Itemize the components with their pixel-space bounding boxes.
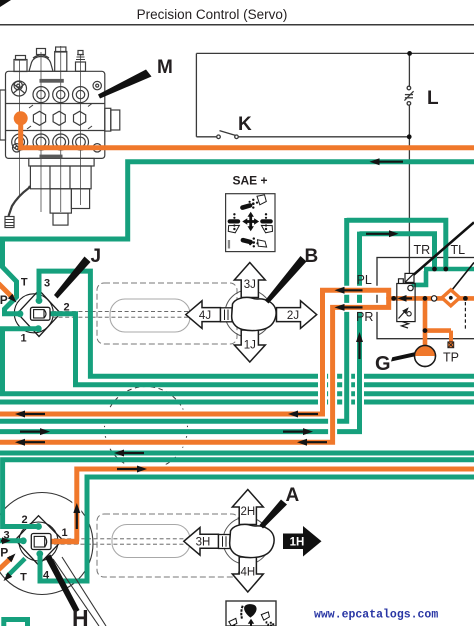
svg-text:PL: PL [357, 273, 372, 287]
svg-text:4H: 4H [240, 567, 255, 579]
svg-text:P: P [0, 546, 8, 560]
svg-text:1J: 1J [244, 340, 256, 352]
svg-text:1: 1 [20, 333, 26, 345]
svg-text:J: J [91, 246, 102, 267]
svg-text:2: 2 [63, 302, 69, 314]
svg-text:www.epcatalogs.com: www.epcatalogs.com [314, 609, 438, 622]
svg-text:PR: PR [356, 310, 373, 324]
svg-text:TP: TP [443, 351, 459, 365]
svg-text:1H: 1H [290, 536, 305, 548]
svg-text:3: 3 [3, 530, 9, 542]
svg-text:SAE +: SAE + [232, 174, 267, 188]
svg-text:4: 4 [43, 570, 50, 582]
svg-text:2: 2 [21, 514, 27, 526]
svg-text:A: A [286, 485, 300, 506]
svg-text:B: B [305, 246, 319, 267]
svg-text:3J: 3J [244, 279, 256, 291]
svg-text:L: L [427, 88, 439, 109]
svg-text:M: M [157, 57, 173, 78]
svg-text:4J: 4J [199, 310, 211, 322]
svg-text:3H: 3H [196, 536, 211, 548]
svg-text:1: 1 [61, 527, 67, 539]
svg-text:3: 3 [44, 278, 50, 290]
svg-text:T: T [21, 277, 28, 289]
svg-text:TL: TL [451, 243, 466, 257]
svg-text:T: T [20, 572, 27, 584]
svg-text:G: G [375, 353, 391, 375]
svg-text:2J: 2J [287, 310, 299, 322]
svg-text:Precision Control (Servo): Precision Control (Servo) [137, 7, 288, 22]
svg-text:K: K [238, 114, 252, 135]
svg-text:2H: 2H [240, 506, 255, 518]
svg-text:H: H [72, 605, 89, 626]
svg-text:TR: TR [414, 243, 431, 257]
svg-text:P: P [0, 293, 8, 307]
